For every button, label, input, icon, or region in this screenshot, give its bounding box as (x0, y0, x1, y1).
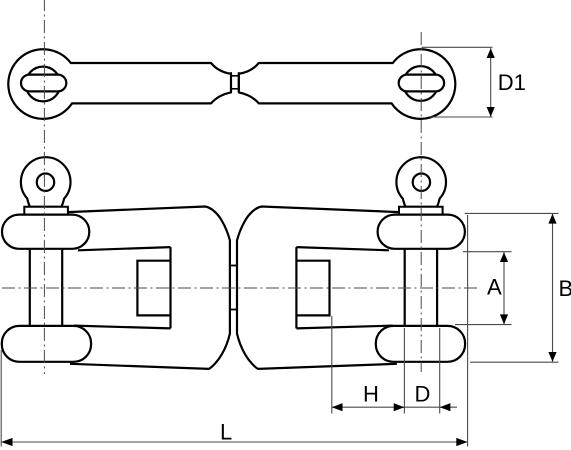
side view: right jaw (mirrored) (230, 157, 465, 369)
centerline right vertical (420, 32, 422, 372)
eye ring outline (21, 157, 71, 207)
dimension D1 line (490, 48, 492, 117)
svg-text:A: A (487, 274, 502, 299)
dimension H arrow right (394, 403, 405, 411)
pin head upper (rounded bar) (2, 215, 89, 249)
pin slot window (137, 261, 170, 316)
collar under eye (24, 207, 68, 215)
top view: left body half outline (8, 49, 231, 119)
dimension B extension top (465, 212, 559, 214)
svg-text:H: H (363, 381, 379, 406)
pin head lower (rounded bar) (2, 326, 91, 362)
centerline horizontal (2, 287, 478, 289)
dimension A extension bottom (455, 324, 512, 326)
dimension A line (503, 252, 505, 324)
dimension B line (552, 214, 554, 362)
fork mouth bottom edge (74, 326, 171, 329)
eye hole (37, 174, 54, 191)
top view: swivel neck right edge (238, 72, 240, 92)
fork outer profile (68, 207, 230, 369)
top view: swivel neck left edge (230, 72, 232, 92)
top view: right pin slot (399, 75, 444, 92)
svg-text:D: D (415, 381, 431, 406)
dimension A extension top (463, 251, 512, 253)
dimension A arrow up (500, 252, 508, 262)
dimension D1 arrow up (487, 48, 495, 58)
top view: left pin slot (21, 75, 66, 92)
dimension B extension bottom (470, 361, 559, 363)
dimension L extension left (0, 350, 2, 447)
svg-text:L: L (220, 420, 232, 445)
dimension H/D shared extension (403, 328, 405, 414)
fork mouth top edge (78, 247, 171, 250)
top view: right pin head circle (403, 66, 438, 101)
dimension B arrow down (548, 352, 556, 362)
dimension D1 extension top (422, 46, 493, 48)
top view: swivel joint tick upper (231, 75, 239, 77)
dimension H extension left (331, 316, 333, 414)
dimension B arrow up (548, 214, 556, 224)
dimension D1 extension bottom (430, 116, 493, 118)
dimension D extension right (439, 328, 441, 414)
swivel neck tick lower (230, 309, 237, 311)
dimension L line (1, 441, 467, 443)
svg-text:B: B (559, 276, 571, 301)
top view: right body half outline (239, 49, 456, 119)
swivel neck tick upper (230, 265, 237, 267)
pin shaft right edge (61, 249, 63, 326)
dimension H arrow left (332, 403, 343, 411)
dimension D1 arrow down (487, 107, 495, 117)
top view: left pin head circle (26, 67, 61, 102)
side view: left jaw fork outline (2, 157, 237, 369)
dimension D arrow left tip (440, 403, 451, 411)
dimension D line (404, 406, 457, 408)
svg-text:D1: D1 (498, 70, 526, 95)
dimension L arrow left (1, 438, 12, 446)
fork mouth front edge (169, 247, 171, 328)
dimension A arrow down (500, 314, 508, 324)
dimension H line (332, 406, 405, 408)
dimension L extension right (467, 215, 469, 447)
centerline left vertical (43, 0, 45, 374)
top view: swivel joint tick lower (231, 88, 239, 90)
dimension L arrow right (456, 438, 467, 446)
pin shaft left edge (29, 249, 31, 326)
